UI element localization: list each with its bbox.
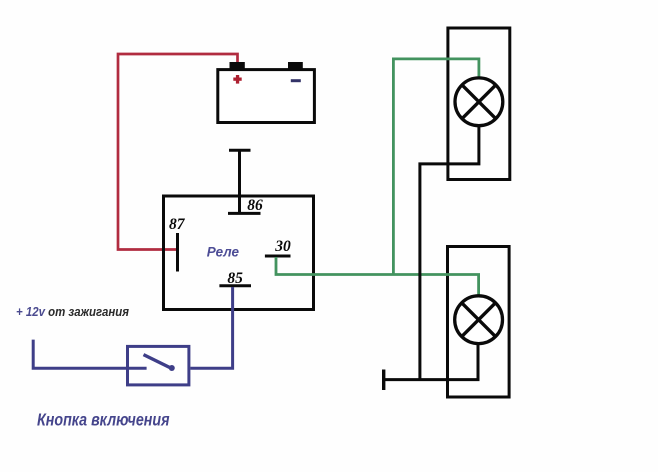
svg-text:30: 30: [274, 238, 291, 255]
svg-text:86: 86: [247, 197, 263, 214]
svg-text:Кнопка включения: Кнопка включения: [37, 411, 170, 430]
svg-text:Реле: Реле: [207, 244, 240, 259]
svg-text:87: 87: [169, 216, 186, 233]
svg-text:85: 85: [227, 270, 243, 287]
svg-text:+ 12v от зажигания: + 12v от зажигания: [16, 305, 129, 320]
